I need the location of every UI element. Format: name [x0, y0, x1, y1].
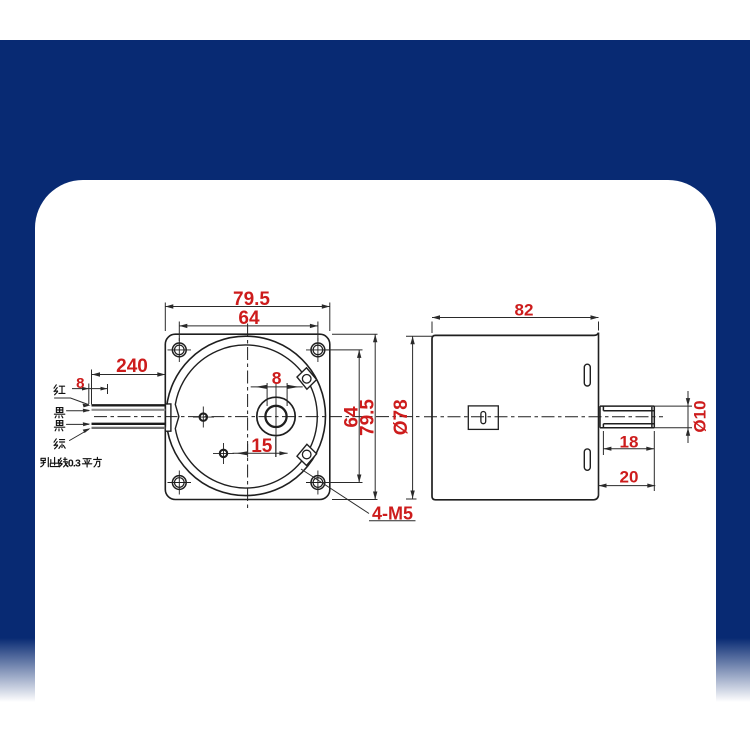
svg-text:20: 20: [620, 468, 639, 487]
chinese wire labels (hand-drawn glyphs): [54, 385, 91, 449]
vertical centerline: [247, 324, 249, 511]
leader black2 wire: [67, 423, 89, 425]
dimensions group: [72, 303, 432, 521]
white content card: [35, 180, 716, 750]
mounting hole bottom-left: [168, 471, 192, 495]
leader green wire: [70, 430, 89, 441]
dim 8 wires: [72, 384, 108, 405]
gearbox outer circle: [166, 336, 325, 495]
output shaft front: [257, 397, 295, 435]
dim dia10: [654, 391, 692, 443]
mounting hole bottom-right: [306, 471, 330, 495]
char chu: [50, 457, 59, 466]
dim 82: [432, 315, 599, 333]
svg-text:240: 240: [116, 356, 148, 377]
wire 1 red: [92, 404, 166, 406]
leader 4-M5: [301, 469, 416, 521]
svg-text:15: 15: [251, 436, 273, 457]
motor body outline: [432, 333, 599, 500]
dim 79.5 top: [165, 303, 329, 332]
flange edge line: [598, 333, 600, 496]
terminal block: [468, 406, 498, 430]
leader black1 wire: [67, 410, 89, 412]
svg-text:4-M5: 4-M5: [372, 504, 413, 524]
label hei (black) 2: [54, 421, 64, 431]
horizontal centerline: [94, 416, 420, 418]
SIDE VIEW: [424, 333, 663, 500]
dim 64 top: [179, 322, 318, 342]
dim 18: [603, 431, 654, 491]
dim dia78 vertical: [406, 336, 432, 499]
side centerline: [424, 416, 663, 418]
shaft vertical line: [275, 382, 277, 457]
wire 4 green: [92, 427, 166, 429]
dim 64 vertical right: [322, 350, 363, 483]
vent slot upper: [584, 364, 590, 386]
flange square: [165, 334, 329, 499]
wire 3 black: [92, 423, 166, 425]
small hole lower: [213, 443, 234, 464]
svg-text:0.3: 0.3: [68, 457, 81, 469]
small hole left: [193, 407, 214, 428]
screw tab lower: [297, 444, 317, 465]
red dimension texts: [76, 289, 709, 523]
screw tab upper: [297, 368, 317, 389]
label hong (red): [54, 385, 65, 395]
vent slot lower: [584, 449, 590, 470]
svg-text:82: 82: [515, 301, 534, 320]
svg-text:8: 8: [76, 375, 84, 392]
wire grommet: [165, 404, 171, 431]
char fang: [94, 457, 102, 467]
side shaft: [600, 406, 654, 428]
wire 2 black: [92, 409, 166, 411]
dim 8 shaft: [251, 383, 303, 406]
char yin: [41, 458, 49, 467]
label hei (black) 1: [54, 408, 64, 418]
char ping: [82, 459, 91, 467]
dim 20: [599, 484, 656, 496]
mounting hole top-left: [168, 338, 192, 362]
dim 240: [92, 370, 166, 405]
char xian: [59, 458, 68, 467]
dim 79.5 vertical right: [332, 334, 378, 499]
svg-text:18: 18: [620, 433, 639, 452]
label lv (green): [54, 439, 65, 449]
svg-text:Ø10: Ø10: [690, 400, 709, 432]
svg-text:8: 8: [272, 368, 282, 388]
leader red wire: [55, 398, 89, 405]
svg-text:64: 64: [238, 308, 260, 329]
caption: lead wire 0.3 sq (hand-drawn glyphs + digits): [41, 457, 68, 467]
gearbox inner circle with left notch: [175, 345, 317, 488]
dim 15: [233, 437, 288, 457]
mounting hole top-right: [306, 338, 330, 362]
svg-text:Ø78: Ø78: [391, 399, 412, 435]
svg-text:79.5: 79.5: [357, 399, 378, 436]
